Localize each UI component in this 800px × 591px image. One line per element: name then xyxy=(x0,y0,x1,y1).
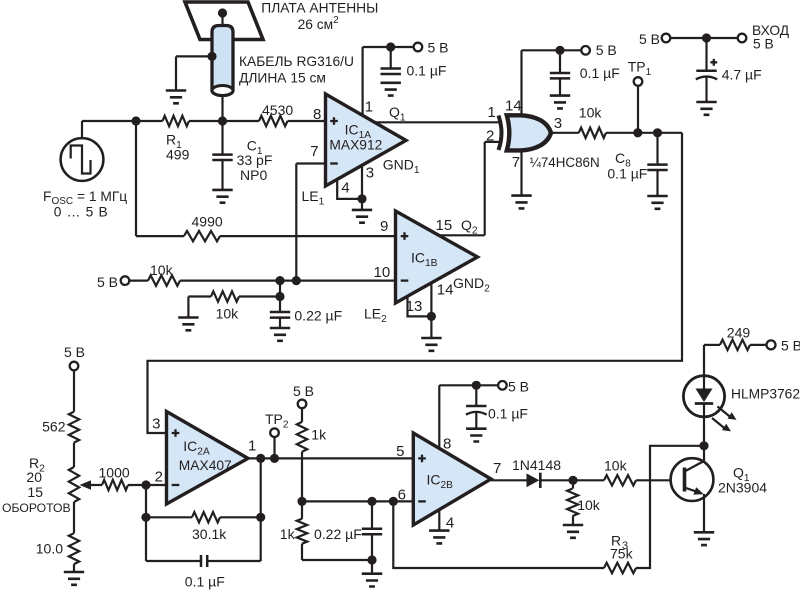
svg-text:10k: 10k xyxy=(579,105,603,121)
svg-text:10.0: 10.0 xyxy=(36,541,63,557)
svg-text:4.7 µF: 4.7 µF xyxy=(722,67,762,83)
svg-text:3: 3 xyxy=(554,115,562,132)
svg-text:TP1: TP1 xyxy=(628,59,652,79)
svg-text:0.1 µF: 0.1 µF xyxy=(407,63,447,79)
svg-text:5 B: 5 B xyxy=(428,39,449,55)
svg-text:7: 7 xyxy=(512,154,520,171)
svg-text:15: 15 xyxy=(436,217,453,234)
svg-text:Q2: Q2 xyxy=(461,217,478,237)
svg-text:0.1 µF: 0.1 µF xyxy=(580,65,620,81)
svg-text:КАБЕЛЬ RG316/U: КАБЕЛЬ RG316/U xyxy=(239,54,354,69)
svg-text:562: 562 xyxy=(42,419,66,435)
svg-text:4: 4 xyxy=(446,515,454,532)
svg-text:20: 20 xyxy=(26,469,42,485)
svg-text:33 pF: 33 pF xyxy=(237,152,273,168)
svg-text:8: 8 xyxy=(443,436,451,453)
svg-text:1000: 1000 xyxy=(99,465,130,481)
svg-text:LE2: LE2 xyxy=(364,306,387,326)
svg-text:5: 5 xyxy=(396,443,404,460)
svg-text:5 В: 5 В xyxy=(293,383,314,399)
svg-text:4: 4 xyxy=(341,179,349,196)
svg-text:1: 1 xyxy=(365,99,373,116)
svg-text:13: 13 xyxy=(406,298,423,315)
svg-text:5 В: 5 В xyxy=(64,344,85,360)
svg-text:5 В: 5 В xyxy=(753,36,774,51)
svg-text:5 В: 5 В xyxy=(97,274,118,290)
svg-text:2N3904: 2N3904 xyxy=(718,480,767,496)
svg-text:GND1: GND1 xyxy=(383,156,420,176)
svg-text:1k: 1k xyxy=(280,526,296,542)
svg-text:10k: 10k xyxy=(577,497,601,513)
svg-text:249: 249 xyxy=(727,325,751,341)
svg-text:Q1: Q1 xyxy=(389,104,406,124)
svg-text:MAX912: MAX912 xyxy=(329,137,382,152)
svg-text:30.1k: 30.1k xyxy=(192,526,227,542)
svg-text:ДЛИНА 15 см: ДЛИНА 15 см xyxy=(239,70,326,85)
svg-text:3: 3 xyxy=(366,165,374,182)
svg-text:0.1 µF: 0.1 µF xyxy=(185,573,225,589)
svg-text:TP2: TP2 xyxy=(265,411,289,431)
svg-text:5 B: 5 B xyxy=(596,42,617,58)
svg-text:7: 7 xyxy=(493,460,501,477)
svg-text:2: 2 xyxy=(486,127,494,144)
svg-text:10k: 10k xyxy=(604,457,628,473)
svg-text:10: 10 xyxy=(374,264,391,281)
svg-text:0 … 5 В: 0 … 5 В xyxy=(54,205,109,220)
svg-text:26 см2: 26 см2 xyxy=(298,15,340,32)
svg-text:4530: 4530 xyxy=(262,102,293,118)
svg-text:1N4148: 1N4148 xyxy=(512,457,561,473)
svg-text:75k: 75k xyxy=(610,545,634,561)
svg-text:¼74HC86N: ¼74HC86N xyxy=(530,155,600,170)
svg-text:15: 15 xyxy=(27,484,43,500)
svg-text:0.1 µF: 0.1 µF xyxy=(607,166,647,182)
svg-text:0.22 µF: 0.22 µF xyxy=(294,307,342,323)
svg-text:0.22 µF: 0.22 µF xyxy=(314,526,362,542)
svg-text:MAX407: MAX407 xyxy=(179,458,232,473)
svg-text:6: 6 xyxy=(398,486,406,503)
svg-text:10k: 10k xyxy=(150,262,174,278)
svg-text:NP0: NP0 xyxy=(240,167,267,183)
svg-text:GND2: GND2 xyxy=(453,275,490,295)
svg-text:LE1: LE1 xyxy=(302,188,325,208)
svg-text:1: 1 xyxy=(248,438,256,455)
svg-text:1k: 1k xyxy=(311,426,327,442)
svg-text:2: 2 xyxy=(155,468,163,485)
svg-text:0.1 µF: 0.1 µF xyxy=(488,405,528,421)
svg-text:7: 7 xyxy=(310,143,318,160)
svg-text:10k: 10k xyxy=(216,305,240,321)
svg-text:5 B: 5 B xyxy=(508,379,529,395)
svg-text:HLMP3762: HLMP3762 xyxy=(731,386,800,401)
svg-text:1: 1 xyxy=(487,104,495,121)
svg-text:8: 8 xyxy=(313,106,321,123)
svg-text:ПЛАТА АНТЕННЫ: ПЛАТА АНТЕННЫ xyxy=(261,0,378,15)
svg-text:9: 9 xyxy=(380,218,388,235)
svg-text:3: 3 xyxy=(152,416,160,433)
svg-text:14: 14 xyxy=(505,98,522,115)
svg-text:499: 499 xyxy=(166,147,190,163)
svg-text:4990: 4990 xyxy=(192,213,223,229)
svg-text:14: 14 xyxy=(437,282,454,299)
svg-text:5 В: 5 В xyxy=(781,338,800,354)
svg-text:ОБОРОТОВ: ОБОРОТОВ xyxy=(2,501,71,515)
svg-text:5 В: 5 В xyxy=(639,31,660,47)
